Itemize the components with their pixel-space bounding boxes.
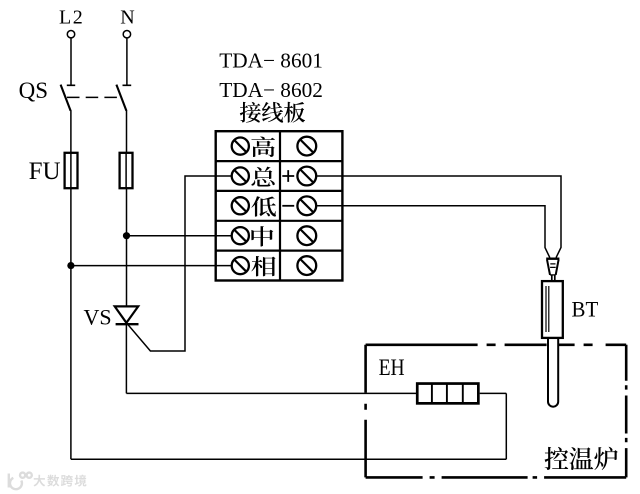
svg-text:VS: VS [84,304,112,329]
svg-text:EH: EH [379,355,405,381]
svg-text:TDA− 8601: TDA− 8601 [219,49,323,73]
svg-text:N: N [120,7,134,29]
svg-text:BT: BT [572,297,599,322]
svg-text:FU: FU [29,158,61,185]
svg-text:QS: QS [19,78,48,103]
svg-text:L2: L2 [59,7,84,29]
svg-text:TDA− 8602: TDA− 8602 [219,78,323,102]
